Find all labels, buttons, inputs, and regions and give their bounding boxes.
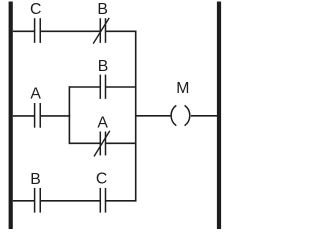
wire: right bus to coil M bbox=[136, 115, 171, 117]
NO contact C (rung 1) bbox=[35, 18, 41, 43]
NO contact C (rung 3) bbox=[100, 188, 105, 213]
coil M left arc bbox=[171, 105, 176, 125]
vertical bus wire (collects rungs) bbox=[135, 31, 137, 202]
wire rung3: contact B to contact C bbox=[40, 200, 100, 202]
svg-text:B: B bbox=[98, 58, 109, 75]
svg-text:A: A bbox=[30, 85, 41, 102]
coil M right arc bbox=[185, 105, 190, 125]
branch left vertical wire bbox=[68, 86, 70, 144]
wire bottom branch: left vertical to contact A bbox=[69, 142, 100, 144]
wire rung2: contact A to parallel branch bbox=[40, 115, 70, 117]
svg-text:B: B bbox=[30, 171, 41, 188]
NO contact A (rung 2) bbox=[35, 103, 41, 128]
NC slash of contact A (bottom branch) bbox=[94, 131, 110, 157]
svg-text:C: C bbox=[30, 1, 41, 18]
wire rung1: left rail to contact C bbox=[13, 30, 35, 32]
wire rung1: contact C to contact B bbox=[40, 30, 100, 32]
NC slash of contact B (rung 1) bbox=[93, 18, 109, 44]
svg-text:C: C bbox=[96, 171, 107, 188]
wire top branch: contact B to right bus bbox=[106, 86, 137, 88]
NO contact B (top branch) bbox=[100, 75, 105, 99]
NC contact B (rung 1) bbox=[100, 18, 105, 43]
wire: coil M to right rail bbox=[191, 115, 217, 117]
wire bottom branch: contact A to right bus bbox=[106, 142, 137, 144]
right power rail bbox=[217, 2, 221, 230]
left power rail bbox=[9, 2, 13, 230]
svg-text:B: B bbox=[97, 1, 108, 18]
svg-text:A: A bbox=[97, 114, 108, 131]
wire rung2: left rail to contact A bbox=[13, 115, 35, 117]
wire rung1: contact B to right bus bbox=[106, 30, 137, 32]
wire rung3: left rail to contact B bbox=[13, 200, 35, 202]
NC contact A (bottom branch) bbox=[100, 132, 105, 156]
NO contact B (rung 3) bbox=[35, 188, 41, 213]
wire top branch: left vertical to contact B bbox=[69, 86, 100, 88]
svg-text:M: M bbox=[176, 80, 189, 97]
wire rung3: contact C to right bus bbox=[106, 200, 137, 202]
